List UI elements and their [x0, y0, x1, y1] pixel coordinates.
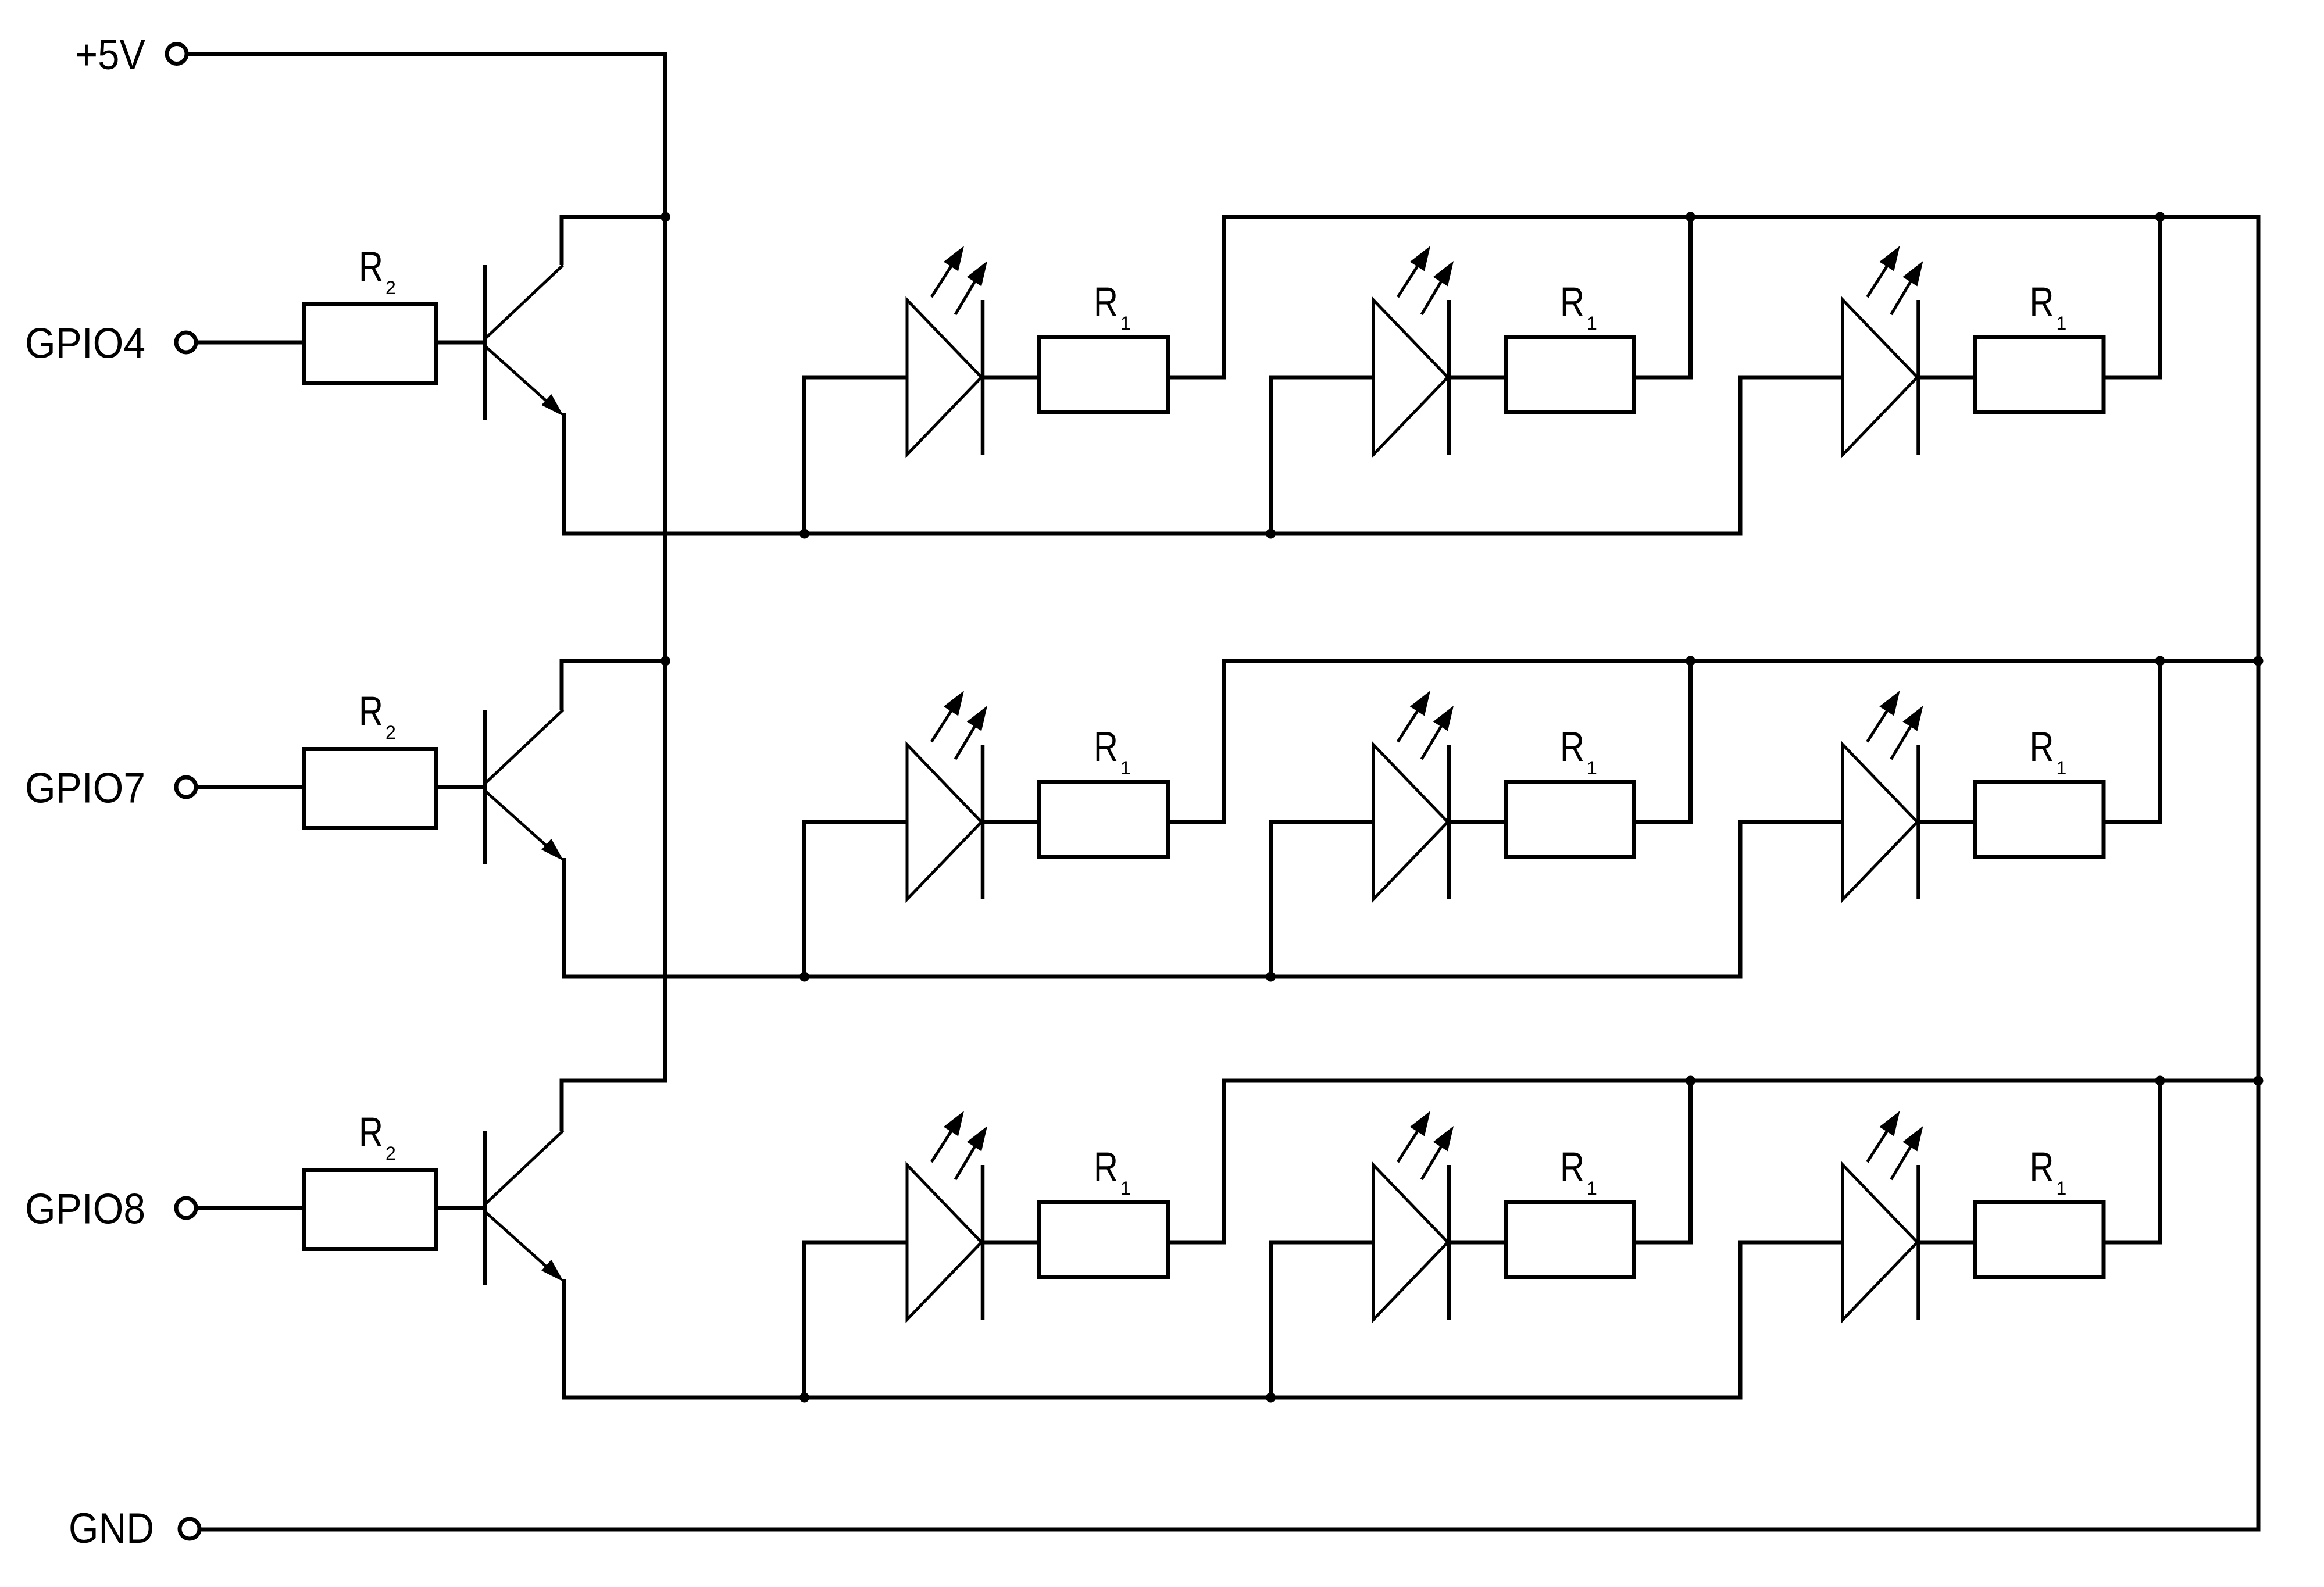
wire GPIO7 to R2: [196, 785, 306, 789]
svg-text:R: R: [1560, 1145, 1584, 1191]
node Q1 collector / +5V rail junction: [661, 212, 670, 222]
resistor R1 (row 2 unit 3): [1975, 782, 2104, 857]
LED D22: [1373, 745, 1448, 899]
LED D33 emission arrows: [1868, 1120, 1894, 1162]
wire R1 to riser (row 2 unit 3): [2104, 820, 2162, 824]
wire GPIO8 to R2: [196, 1206, 306, 1210]
wire right vertical rail: [2257, 217, 2261, 1529]
wire +5V horizontal: [187, 52, 667, 56]
wire LED33 feed vertical: [1738, 1241, 1743, 1400]
wire R1 to riser (row 1 unit 3): [2104, 376, 2162, 380]
wire LED13 anode: [1738, 376, 1844, 380]
wire LED31 anode: [802, 1241, 908, 1245]
wire R2 to base Q1: [436, 341, 487, 345]
node top rail / right rail junction (row 3): [2254, 1076, 2264, 1086]
svg-text:R: R: [359, 689, 383, 735]
wire riser (row 2 unit 1): [1222, 663, 1226, 823]
LED D21 emission arrows: [931, 700, 958, 742]
terminal GND: [180, 1519, 199, 1539]
wire riser (row 2 unit 3): [2158, 663, 2162, 823]
LED D21: [907, 745, 981, 899]
wire R1 to riser (row 1 unit 1): [1168, 376, 1226, 380]
svg-text:GPIO4: GPIO4: [25, 320, 145, 367]
wire Q2 emitter down: [562, 858, 566, 979]
svg-text:GPIO7: GPIO7: [25, 765, 145, 812]
wire top rail (row 2): [1222, 659, 2261, 663]
svg-text:R: R: [2030, 724, 2054, 770]
LED D31 emission arrows: [931, 1120, 958, 1162]
transistor Q1 emitter: [486, 347, 552, 406]
wire R1 to riser (row 3 unit 3): [2104, 1241, 2162, 1245]
wire GPIO4 to R2: [196, 341, 306, 345]
wire LED31 cathode to R1: [983, 1241, 1040, 1245]
wire LED23 anode: [1738, 820, 1844, 824]
terminal GPIO7: [176, 777, 196, 797]
node bottom rail / LED21 feed junction: [799, 972, 809, 982]
wire emitter bottom rail (row 2): [562, 975, 1741, 979]
LED D13: [1843, 300, 1918, 455]
svg-text:2: 2: [385, 1143, 396, 1164]
wire LED21 cathode to R1: [983, 820, 1040, 824]
LED D22 emission arrows: [1398, 700, 1425, 742]
wire LED12 cathode to R1: [1449, 376, 1506, 380]
node top rail / riser junction (row 2 unit 2): [1686, 656, 1695, 666]
node bottom rail / LED12 feed junction: [1266, 529, 1276, 539]
wire riser (row 3 unit 2): [1688, 1083, 1693, 1243]
wire emitter bottom rail (row 1): [562, 532, 1741, 536]
transistor Q1 collector: [486, 265, 563, 338]
wire GND horizontal: [199, 1528, 2261, 1532]
wire top rail (row 1): [1222, 215, 2261, 219]
wire riser (row 1 unit 2): [1688, 219, 1693, 378]
resistor R1 (row 1 unit 3): [1975, 338, 2104, 413]
wire LED33 anode: [1738, 1241, 1844, 1245]
svg-text:1: 1: [1587, 1178, 1597, 1199]
node top rail / riser junction (row 1 unit 3): [2155, 212, 2165, 222]
wire LED32 anode: [1269, 1241, 1375, 1245]
svg-text:1: 1: [2057, 757, 2067, 778]
wire LED31 feed vertical: [802, 1241, 806, 1400]
svg-text:R: R: [2030, 280, 2054, 326]
wire LED32 feed vertical: [1269, 1241, 1273, 1400]
terminal GPIO8: [176, 1198, 196, 1218]
transistor Q2 base bar: [483, 710, 487, 864]
wire LED23 cathode to R1: [1919, 820, 1976, 824]
LED D31: [907, 1165, 981, 1320]
wire R1 to riser (row 1 unit 2): [1634, 376, 1693, 380]
node bottom rail / LED22 feed junction: [1266, 972, 1276, 982]
node top rail / riser junction (row 1 unit 2): [1686, 212, 1695, 222]
wire riser (row 3 unit 1): [1222, 1083, 1226, 1243]
svg-text:R: R: [359, 244, 383, 290]
svg-text:R: R: [1094, 724, 1118, 770]
transistor Q2 emitter: [486, 792, 552, 851]
transistor Q3 base bar: [483, 1131, 487, 1285]
wire LED23 feed vertical: [1738, 820, 1743, 979]
terminal GPIO4: [176, 333, 196, 352]
resistor R1 (row 2 unit 1): [1040, 782, 1168, 857]
svg-text:1: 1: [1587, 313, 1597, 334]
LED D13 emission arrows: [1868, 255, 1894, 297]
node bottom rail / LED11 feed junction: [799, 529, 809, 539]
svg-text:1: 1: [2057, 1178, 2067, 1199]
node top rail / riser junction (row 3 unit 2): [1686, 1076, 1695, 1086]
wire LED32 cathode to R1: [1449, 1241, 1506, 1245]
svg-text:+5V: +5V: [75, 31, 145, 78]
LED D12 emission arrows: [1398, 255, 1425, 297]
wire LED11 feed vertical: [802, 376, 806, 536]
transistor Q2 collector: [486, 710, 563, 782]
svg-text:2: 2: [385, 277, 396, 298]
transistor Q1 base bar: [483, 265, 487, 420]
wire LED22 feed vertical: [1269, 820, 1273, 979]
wire +5V vertical rail: [663, 54, 667, 1083]
wire R2 to base Q2: [436, 785, 487, 789]
wire LED33 cathode to R1: [1919, 1241, 1976, 1245]
wire R1 to riser (row 3 unit 1): [1168, 1241, 1226, 1245]
svg-text:GPIO8: GPIO8: [25, 1186, 145, 1233]
node top rail / right rail junction (row 2): [2254, 656, 2264, 666]
svg-text:R: R: [1094, 1145, 1118, 1191]
wire R1 to riser (row 3 unit 2): [1634, 1241, 1693, 1245]
svg-text:2: 2: [385, 722, 396, 743]
wire LED22 cathode to R1: [1449, 820, 1506, 824]
node top rail / riser junction (row 3 unit 3): [2155, 1076, 2165, 1086]
wire top rail (row 3): [1222, 1079, 2261, 1083]
wire R1 to riser (row 2 unit 1): [1168, 820, 1226, 824]
resistor R1 (row 1 unit 1): [1040, 338, 1168, 413]
LED D32: [1373, 1165, 1448, 1320]
svg-text:1: 1: [1120, 757, 1131, 778]
svg-text:R: R: [1560, 280, 1584, 326]
wire LED22 anode: [1269, 820, 1375, 824]
transistor Q3 emitter: [486, 1213, 552, 1272]
terminal +5V: [167, 44, 187, 64]
node bottom rail / LED32 feed junction: [1266, 1393, 1276, 1403]
resistor R1 (row 3 unit 2): [1506, 1203, 1634, 1278]
wire LED21 feed vertical: [802, 820, 806, 979]
LED D11: [907, 300, 981, 455]
svg-text:1: 1: [1120, 1178, 1131, 1199]
svg-text:1: 1: [1587, 757, 1597, 778]
LED D23 emission arrows: [1868, 700, 1894, 742]
wire Q1 emitter down: [562, 413, 566, 536]
wire R2 to base Q3: [436, 1206, 487, 1210]
wire riser (row 2 unit 2): [1688, 663, 1693, 823]
LED D32 emission arrows: [1398, 1120, 1425, 1162]
resistor R1 (row 3 unit 3): [1975, 1203, 2104, 1278]
wire LED12 feed vertical: [1269, 376, 1273, 536]
node top rail / riser junction (row 2 unit 3): [2155, 656, 2165, 666]
svg-text:R: R: [1560, 724, 1584, 770]
wire riser (row 1 unit 3): [2158, 219, 2162, 378]
svg-text:R: R: [2030, 1145, 2054, 1191]
resistor R2 (row 3): [305, 1170, 437, 1249]
resistor R2 (row 2): [305, 749, 437, 828]
transistor Q3 collector: [486, 1131, 563, 1203]
node bottom rail / LED31 feed junction: [799, 1393, 809, 1403]
svg-text:1: 1: [1120, 313, 1131, 334]
svg-text:R: R: [1094, 280, 1118, 326]
wire LED13 cathode to R1: [1919, 376, 1976, 380]
wire emitter bottom rail (row 3): [562, 1396, 1741, 1400]
wire LED13 feed vertical: [1738, 376, 1743, 536]
svg-text:1: 1: [2057, 313, 2067, 334]
node Q2 collector / +5V rail junction: [661, 656, 670, 666]
LED D12: [1373, 300, 1448, 455]
svg-text:GND: GND: [69, 1505, 154, 1552]
resistor R2 (row 1): [305, 305, 437, 384]
wire LED11 cathode to R1: [983, 376, 1040, 380]
resistor R1 (row 3 unit 1): [1040, 1203, 1168, 1278]
wire Q3 emitter down: [562, 1279, 566, 1400]
wire riser (row 1 unit 1): [1222, 219, 1226, 378]
svg-text:R: R: [359, 1110, 383, 1156]
LED D33: [1843, 1165, 1918, 1320]
wire riser (row 3 unit 3): [2158, 1083, 2162, 1243]
LED D23: [1843, 745, 1918, 899]
wire LED11 anode: [802, 376, 908, 380]
resistor R1 (row 1 unit 2): [1506, 338, 1634, 413]
resistor R1 (row 2 unit 2): [1506, 782, 1634, 857]
LED D11 emission arrows: [931, 255, 958, 297]
wire R1 to riser (row 2 unit 2): [1634, 820, 1693, 824]
wire LED12 anode: [1269, 376, 1375, 380]
wire LED21 anode: [802, 820, 908, 824]
